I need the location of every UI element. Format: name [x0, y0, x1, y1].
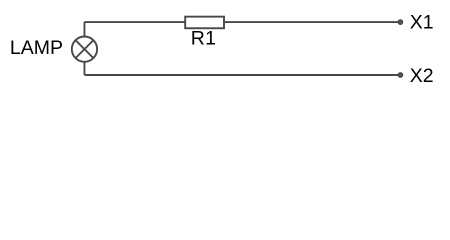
svg-text:R1: R1	[191, 28, 217, 50]
svg-text:X2: X2	[410, 65, 434, 87]
svg-text:LAMP: LAMP	[10, 37, 63, 59]
svg-text:X1: X1	[410, 12, 434, 34]
